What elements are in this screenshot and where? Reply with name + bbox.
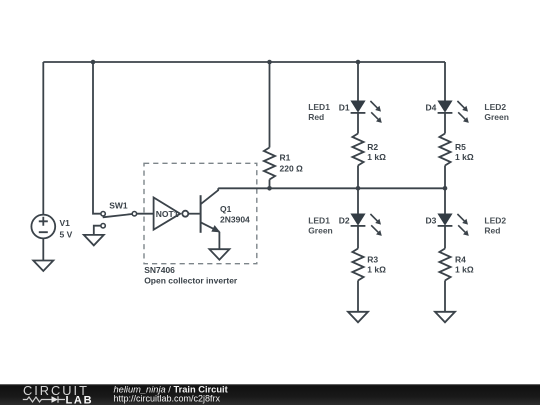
- label LED2 Green: [484, 102, 509, 122]
- wire NOT1 to Q1 base: [188, 213, 200, 215]
- dashed box SN7406: [144, 163, 257, 263]
- ground below V1: [33, 261, 53, 272]
- svg-text:LAB: LAB: [66, 394, 94, 405]
- wire D4 to R5: [444, 113, 446, 134]
- wire V1 to top rail: [42, 62, 44, 215]
- switch SW1: [101, 212, 137, 228]
- svg-text:SW1: SW1: [109, 201, 128, 211]
- wire top rail to R1: [269, 62, 271, 148]
- label LED1 Red: [308, 102, 330, 122]
- wire R1 to collector rail: [269, 180, 271, 189]
- transistor Q1: [201, 188, 220, 233]
- node dot R1 top: [267, 60, 272, 65]
- wire D1 to R2: [357, 113, 359, 134]
- ground below R3: [348, 312, 368, 323]
- node dot D1 top: [356, 60, 361, 65]
- svg-text:http://circuitlab.com/c2j8frx: http://circuitlab.com/c2j8frx: [114, 394, 221, 404]
- label SN7406 Open collector inverter: [144, 265, 238, 286]
- ground below R4: [435, 312, 455, 323]
- svg-text:Open collector inverter: Open collector inverter: [144, 276, 238, 286]
- svg-text:LED1: LED1: [308, 215, 330, 225]
- node dot R1 bottom: [267, 186, 272, 191]
- ground below SW1: [84, 235, 104, 246]
- LED D1: [351, 101, 382, 123]
- label R4 1 kΩ: [455, 255, 474, 275]
- svg-text:D4: D4: [426, 103, 437, 113]
- svg-text:220 Ω: 220 Ω: [280, 164, 304, 174]
- svg-text:Green: Green: [308, 225, 333, 235]
- label R2 1 kΩ: [367, 142, 386, 162]
- wire R3 to ground: [357, 281, 359, 312]
- svg-text:Q1: Q1: [220, 204, 232, 214]
- svg-text:LED2: LED2: [484, 215, 506, 225]
- wire D2 to R3: [357, 226, 359, 249]
- wire R2 to rail: [357, 166, 359, 189]
- logo CIRCUIT LAB: [23, 383, 93, 405]
- resistor R3: [352, 249, 363, 281]
- label D3: [426, 216, 437, 226]
- svg-text:D2: D2: [339, 216, 350, 226]
- svg-text:SN7406: SN7406: [144, 265, 175, 275]
- label Q1 2N3904: [220, 204, 250, 225]
- wire top rail corner to D4: [444, 62, 446, 101]
- wire R5 to rail: [444, 166, 446, 189]
- label R3 1 kΩ: [367, 255, 386, 275]
- label D2: [339, 216, 350, 226]
- wire top rail: [43, 61, 445, 63]
- label D1: [339, 103, 350, 113]
- svg-text:LED1: LED1: [308, 102, 330, 112]
- svg-text:1 kΩ: 1 kΩ: [455, 152, 474, 162]
- node dot D3 branch: [443, 186, 448, 191]
- label SW1: [109, 201, 128, 211]
- svg-text:NOT1: NOT1: [156, 209, 179, 219]
- svg-text:R5: R5: [455, 142, 466, 152]
- ground below Q1: [209, 249, 229, 260]
- node dot D2 branch: [356, 186, 361, 191]
- label D4: [426, 103, 437, 113]
- wire top rail to D1: [357, 62, 359, 101]
- svg-text:R3: R3: [367, 255, 378, 265]
- wire SW1 to NOT1: [137, 213, 154, 215]
- resistor R4: [439, 249, 450, 281]
- svg-text:1 kΩ: 1 kΩ: [367, 265, 386, 275]
- inverter NOT1: [154, 198, 189, 230]
- svg-text:5 V: 5 V: [60, 230, 73, 240]
- resistor R5: [439, 134, 450, 166]
- svg-text:R2: R2: [367, 142, 378, 152]
- wire rail to D2: [357, 188, 359, 214]
- svg-text:D3: D3: [426, 216, 437, 226]
- label R1 220 Ω: [280, 153, 304, 174]
- wire collector rail: [218, 187, 445, 189]
- label NOT1: [156, 209, 179, 219]
- voltage source V1: [31, 215, 55, 239]
- LED D3: [438, 214, 469, 236]
- svg-text:R4: R4: [455, 255, 466, 265]
- wire R4 to ground: [444, 281, 446, 312]
- svg-text:1 kΩ: 1 kΩ: [367, 152, 386, 162]
- label LED2 Red: [484, 215, 506, 235]
- wire Q1 emitter to ground: [218, 232, 220, 249]
- resistor R1: [264, 148, 275, 180]
- footer text: [114, 385, 228, 404]
- wire rail to D3: [444, 188, 446, 214]
- node dot top rail / SW1 branch: [91, 60, 96, 65]
- label R5 1 kΩ: [455, 142, 474, 162]
- resistor R2: [352, 134, 363, 166]
- svg-text:R1: R1: [280, 153, 291, 163]
- svg-text:2N3904: 2N3904: [220, 215, 250, 225]
- svg-text:LED2: LED2: [484, 102, 506, 112]
- LED D2: [351, 214, 382, 236]
- svg-text:Red: Red: [308, 112, 324, 122]
- svg-text:Red: Red: [484, 225, 500, 235]
- wire top rail to SW1: [93, 62, 101, 214]
- footer bar: [0, 384, 540, 405]
- label V1 5 V: [60, 218, 73, 240]
- svg-text:V1: V1: [60, 218, 71, 228]
- wire V1 to ground: [42, 238, 44, 260]
- svg-text:Green: Green: [484, 112, 509, 122]
- svg-text:D1: D1: [339, 103, 350, 113]
- label LED1 Green: [308, 215, 333, 235]
- wire SW1 lower throw to ground: [94, 226, 101, 235]
- svg-text:1 kΩ: 1 kΩ: [455, 265, 474, 275]
- LED D4: [438, 101, 469, 123]
- wire D3 to R4: [444, 226, 446, 249]
